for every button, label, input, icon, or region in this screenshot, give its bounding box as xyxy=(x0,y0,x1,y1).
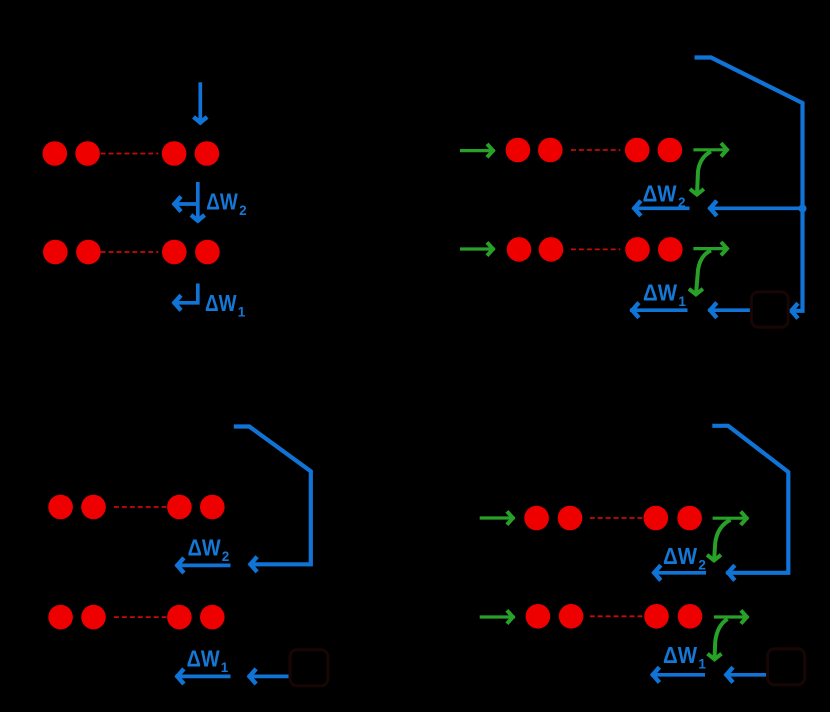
svg-text:ΔW: ΔW xyxy=(205,290,237,316)
panel (b) faint box xyxy=(751,292,788,327)
svg-text:2: 2 xyxy=(698,558,706,573)
panel (b) dW1 underline arrow shaft xyxy=(630,308,688,312)
panel (d) box arrow shaft xyxy=(725,673,768,677)
panel (b) row2 green right arrow shaft xyxy=(693,247,728,250)
panel (a) row1 dot 4 xyxy=(195,141,220,166)
svg-text:1: 1 xyxy=(698,657,706,672)
panel (d) row1 dot 2 xyxy=(558,506,583,531)
panel (b) row2 dot 2 xyxy=(539,237,564,262)
panel (d) row1 dot 4 xyxy=(677,506,702,531)
panel (a) dW1 bent arrow shaft xyxy=(173,284,198,303)
panel (a) row2 dot 2 xyxy=(76,240,101,265)
panel (d) dW1 underline arrowhead xyxy=(653,667,660,682)
panel (c) box arrowhead left xyxy=(250,669,257,684)
panel (c) dW1 underline arrow shaft xyxy=(176,675,231,679)
panel (b) dW2 underline arrow shaft xyxy=(633,206,690,210)
panel (b) row1 green curved arrow xyxy=(697,152,711,195)
panel (d) row1 green curved arrow xyxy=(714,520,730,561)
panel (d) row1 green right arrowhead xyxy=(741,512,747,525)
panel (d) dW1 underline arrow shaft xyxy=(651,673,705,677)
panel (d) row1 dashed bond xyxy=(590,517,643,519)
panel (b) long arrowhead left xyxy=(710,201,717,216)
panel (a) dW2 horizontal arrowhead left xyxy=(174,196,181,211)
panel (c) faint box xyxy=(290,650,328,686)
panel (b) row1 green right arrow shaft xyxy=(693,148,728,151)
panel (d) row1 dot 1 xyxy=(524,506,549,531)
panel (b) row1 green curve arrowhead down xyxy=(690,189,704,195)
panel (a) row1 dot 2 xyxy=(75,141,100,166)
panel (c) dW1 underline arrowhead xyxy=(177,669,184,684)
panel (a) row2 dot 3 xyxy=(162,240,187,265)
panel (b) row2 green curve arrowhead down xyxy=(689,289,703,295)
panel (a) row2 dot 4 xyxy=(195,240,220,265)
panel (d) row2 dot 4 xyxy=(678,604,703,629)
panel (b) junction dot xyxy=(799,205,807,213)
panel (a) dW2 vertical arrow shaft xyxy=(196,182,200,222)
panel (d) row2 dashed bond xyxy=(590,615,643,617)
svg-text:2: 2 xyxy=(239,203,247,218)
panel (a) dW2 vertical arrowhead down xyxy=(191,215,205,221)
svg-text:ΔW: ΔW xyxy=(643,280,677,306)
panel (c) box arrow shaft xyxy=(248,675,292,679)
panel (c) row2 dot 1 xyxy=(48,605,73,630)
panel (d) row1 green left arrowhead xyxy=(507,511,513,524)
panel (c) row2 dashed bond xyxy=(114,616,166,618)
panel (a) row1 dashed bond xyxy=(101,153,159,155)
svg-text:ΔW: ΔW xyxy=(206,189,238,215)
panel (a) row1 dot 3 xyxy=(162,141,187,166)
panel (b) row2 dot 4 xyxy=(658,237,683,262)
svg-text:1: 1 xyxy=(238,304,246,319)
panel (c) row1 dot 4 xyxy=(200,495,225,520)
panel (d) dW2 underline arrowhead xyxy=(654,565,661,580)
panel (d) row2 green left arrowhead xyxy=(507,610,513,623)
panel (b) row2 green left arrow shaft xyxy=(460,247,495,250)
svg-text:1: 1 xyxy=(221,660,229,675)
panel (b) row1 dot 4 xyxy=(658,138,683,163)
panel (d) row2 dot 3 xyxy=(644,604,669,629)
panel (c) row1 dashed bond xyxy=(114,506,166,508)
svg-text:ΔW: ΔW xyxy=(188,534,221,560)
panel (d) row1 green right arrow shaft xyxy=(713,517,749,520)
panel (b) row2 dot 1 xyxy=(507,237,532,262)
svg-text:ΔW: ΔW xyxy=(663,642,697,668)
panel (d) row2 green curve arrowhead down xyxy=(708,654,722,660)
panel (c) dW2 underline arrow shaft xyxy=(176,564,231,568)
panel (b) dW2 underline arrowhead xyxy=(634,201,641,216)
panel (b) row2 green right arrowhead xyxy=(721,242,727,255)
panel (a) top vertical blue arrow shaft xyxy=(198,82,202,124)
svg-text:1: 1 xyxy=(678,294,686,309)
panel (a) dW1 arrowhead left xyxy=(174,295,181,310)
svg-text:ΔW: ΔW xyxy=(663,543,697,569)
panel (d) bracket arrowhead left xyxy=(728,565,735,580)
panel (c) dW2 underline arrowhead xyxy=(177,558,184,573)
panel (d) row1 green left arrow shaft xyxy=(480,516,515,519)
panel (b) row1 dot 1 xyxy=(506,138,531,163)
panel (b) row1 dashed bond xyxy=(571,149,620,151)
panel (d) row2 green right arrowhead xyxy=(741,610,747,623)
panel (a) row2 dashed bond xyxy=(101,251,159,253)
panel (b) row2 green left arrowhead xyxy=(487,242,493,255)
panel (d) row1 dot 3 xyxy=(644,506,669,531)
panel (a) row2 dot 1 xyxy=(43,240,68,265)
panel (b) bracket polyline xyxy=(695,58,803,311)
panel (d) row2 dot 1 xyxy=(526,604,551,629)
panel (c) bracket polyline xyxy=(234,427,311,565)
panel (b) row2 dot 3 xyxy=(625,237,650,262)
panel (d) row2 green right arrow shaft xyxy=(714,615,749,618)
panel (d) faint box xyxy=(768,649,805,685)
panel (b) long arrow shaft to dW2 xyxy=(708,206,802,210)
panel (d) row2 green curved arrow xyxy=(715,619,728,659)
panel (b) row2 green curved arrow xyxy=(696,250,711,294)
panel (b) middle arrowhead left xyxy=(710,303,717,318)
svg-text:ΔW: ΔW xyxy=(643,181,677,207)
svg-text:2: 2 xyxy=(222,549,230,564)
panel (d) row2 green left arrow shaft xyxy=(480,615,515,618)
panel (b) row1 green left arrow shaft xyxy=(460,149,495,152)
panel (a) row1 dot 1 xyxy=(43,141,68,166)
panel (b) row1 green right arrowhead xyxy=(721,143,727,156)
svg-text:ΔW: ΔW xyxy=(187,645,220,671)
panel (c) row1 dot 3 xyxy=(167,495,192,520)
panel (c) row2 dot 3 xyxy=(167,605,192,630)
panel (a) top vertical blue arrowhead xyxy=(194,117,208,123)
panel (b) bracket bottom arrowhead left xyxy=(791,303,798,318)
panel (b) row2 dashed bond xyxy=(571,248,620,250)
panel (c) row1 dot 1 xyxy=(48,495,73,520)
panel (d) row1 green curve arrowhead down xyxy=(707,555,721,561)
panel (c) row2 dot 4 xyxy=(200,605,225,630)
panel (d) row2 dot 2 xyxy=(559,604,584,629)
panel (b) row1 dot 3 xyxy=(625,138,650,163)
panel (b) row1 green left arrowhead xyxy=(487,144,493,157)
panel (b) row1 dot 2 xyxy=(538,138,563,163)
panel (c) row2 dot 2 xyxy=(81,605,106,630)
panel (c) row1 dot 2 xyxy=(81,495,106,520)
panel (c) bracket arrowhead left xyxy=(251,557,258,572)
panel (b) middle arrow shaft from box xyxy=(708,308,751,312)
panel (b) dW1 underline arrowhead xyxy=(632,303,639,318)
panel (d) bracket polyline xyxy=(712,426,788,573)
panel (d) box arrowhead left xyxy=(726,667,733,682)
panel (d) dW2 underline arrow shaft xyxy=(653,571,707,575)
panel (a) dW2 horizontal arrow shaft xyxy=(173,202,198,206)
